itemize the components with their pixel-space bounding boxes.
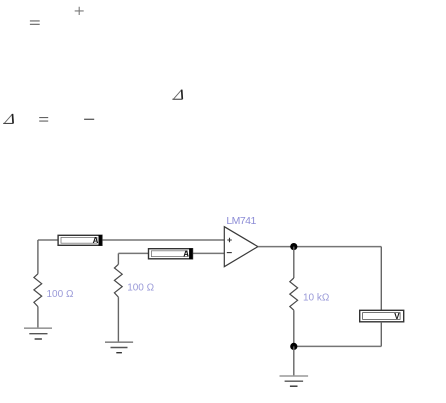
voltmeter U4 (V) bbox=[360, 310, 404, 322]
ground G1 bbox=[24, 328, 52, 339]
wire: top input horizontal left segment bbox=[38, 239, 58, 241]
node B junction dot bbox=[290, 343, 297, 350]
formula row 1: equals sign bbox=[30, 21, 40, 24]
formula row 1: plus sign bbox=[75, 7, 84, 15]
svg-text:A: A bbox=[183, 250, 189, 259]
formula row 2: equals sign bbox=[39, 118, 48, 122]
wire: node B to ground bbox=[293, 346, 295, 376]
node A junction dot bbox=[290, 243, 297, 250]
resistor R2 bbox=[114, 264, 122, 297]
ammeter U2 (middle, A) bbox=[149, 248, 193, 259]
wire: bottom horizontal node B to right bbox=[294, 345, 382, 347]
wire: node A to right corner bbox=[294, 246, 382, 248]
op-amp U3 LM741 bbox=[224, 227, 258, 267]
resistor R1 bbox=[34, 274, 42, 307]
svg-text:100 Ω: 100 Ω bbox=[127, 282, 154, 293]
ground G3 bbox=[280, 376, 309, 386]
wire: op-amp output to node A bbox=[258, 246, 294, 248]
wire: node A down to R3 bbox=[293, 247, 295, 278]
ground G2 bbox=[105, 342, 133, 353]
svg-text:10 kΩ: 10 kΩ bbox=[303, 292, 330, 303]
resistor R3 10k bbox=[290, 278, 298, 310]
wire: left vertical down to R1 bbox=[37, 240, 39, 274]
formula row 2: minus sign bbox=[84, 118, 94, 120]
svg-text:V: V bbox=[394, 312, 400, 321]
svg-text:LM741: LM741 bbox=[226, 215, 256, 227]
wire: R1 to ground bbox=[37, 307, 39, 328]
wire: middle input horizontal left segment bbox=[118, 252, 148, 254]
svg-text:A: A bbox=[93, 236, 99, 245]
formula delta (upper) bbox=[172, 90, 182, 100]
formula row 2: delta bbox=[3, 114, 13, 124]
wire: ammeter2 to op-amp minus input bbox=[193, 252, 225, 254]
wire: R3 down to node B bbox=[293, 310, 295, 346]
wire: voltmeter bottom down bbox=[380, 322, 382, 347]
wire: right vertical down to voltmeter bbox=[380, 247, 382, 311]
wire: top input horizontal right segment to op-amp bbox=[102, 239, 224, 241]
svg-text:100 Ω: 100 Ω bbox=[47, 289, 74, 300]
wire: middle vertical to R2 bbox=[117, 253, 119, 264]
ammeter U1 (top, A) bbox=[58, 235, 102, 246]
wire: R2 to ground bbox=[117, 297, 119, 342]
